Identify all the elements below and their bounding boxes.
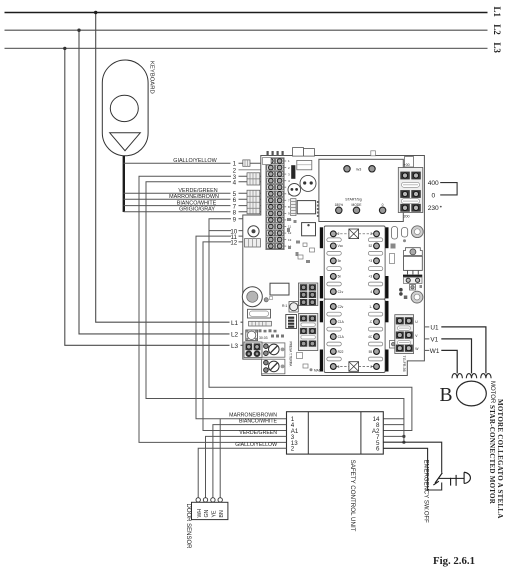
small part at board top right — [405, 157, 414, 168]
motor M — [440, 381, 496, 406]
svg-text:L2: L2 — [492, 24, 502, 35]
svg-text:L2: L2 — [231, 332, 239, 339]
relay K2 slot pair — [327, 327, 383, 331]
tick after 230 — [440, 206, 442, 208]
svg-text:13: 13 — [288, 238, 292, 242]
svg-text:180%: 180% — [335, 203, 344, 207]
svg-text:nv3: nv3 — [356, 168, 362, 172]
small part left of motor block — [390, 341, 398, 349]
terminal strip X1 — [266, 158, 284, 250]
voltage selector block X2 — [398, 163, 423, 219]
connector CN4 — [299, 314, 318, 351]
svg-text:+3: +3 — [369, 275, 373, 279]
svg-text:DOOR SENSOR: DOOR SENSOR — [185, 504, 191, 550]
relay driver box — [297, 160, 312, 169]
small cap C2 — [264, 297, 272, 302]
svg-text:200: 200 — [404, 215, 410, 219]
relay K1 slot pair — [327, 267, 383, 271]
keyboard — [102, 60, 154, 156]
motor terminal block X3 (U1 V1 W1) — [395, 315, 420, 354]
relay K2 contact row 2 — [330, 319, 379, 325]
solder pad bar — [320, 350, 323, 372]
svg-text:YE: YE — [212, 510, 218, 517]
screw terminal ST1 — [262, 343, 285, 357]
safety control unit box — [287, 412, 384, 454]
resistor array RN1 — [291, 199, 296, 216]
X1 screw terminal row 2 — [267, 165, 290, 170]
svg-text:L3: L3 — [231, 343, 239, 350]
bottom-center small parts — [297, 353, 380, 373]
relay coil symbol K2 — [336, 362, 373, 372]
solder pad bar — [320, 276, 323, 298]
svg-text:GIALLO/YELLOW: GIALLO/YELLOW — [173, 158, 217, 164]
svg-text:5n: 5n — [338, 259, 342, 263]
svg-text:52: 52 — [369, 244, 373, 248]
svg-text:B: B — [440, 385, 453, 406]
relay K1 contact row 1 — [330, 231, 379, 237]
power rail L3 — [5, 42, 503, 53]
svg-text:1-: 1- — [369, 305, 372, 309]
svg-text:230: 230 — [428, 205, 439, 212]
solder pad bar — [320, 301, 323, 322]
solder pad bar — [385, 227, 388, 248]
wire 4 (to safety unit 14 over-box run) — [146, 180, 404, 419]
door sensor wire WH (to terminal 2) — [198, 448, 286, 497]
mounting hole H2 — [411, 291, 423, 303]
X1 screw terminal row 11 — [267, 224, 292, 229]
keyboard cable — [123, 156, 125, 212]
small parts right of K1 — [391, 227, 408, 249]
transistor Q2 — [300, 175, 316, 191]
safety unit wire 8 — [383, 424, 404, 426]
X1 screw terminal row 4 — [267, 178, 290, 183]
svg-text:BIANCO/WHITE: BIANCO/WHITE — [177, 200, 217, 206]
solder pad bar — [385, 301, 388, 322]
display module M1 — [317, 159, 403, 221]
wire 11 (to safety unit 1) — [196, 234, 287, 419]
connector CN3 — [299, 283, 318, 306]
wire 8 GRIGIO/GRAY — [124, 206, 267, 216]
mains terminal block L1L2L3 — [244, 342, 262, 358]
power connector on top edge — [293, 148, 315, 157]
X1 screw terminal row 3 — [267, 172, 290, 177]
svg-text:V1: V1 — [430, 337, 438, 344]
connector on wire 12 row — [245, 239, 261, 247]
IC U2 — [297, 201, 315, 214]
door sensor wire BN (joins wire to terminal 1) — [219, 419, 221, 498]
junction vertical 14-8-7-5 — [403, 419, 405, 442]
X1 screw terminal row 7 — [267, 198, 290, 203]
svg-text:C1A: C1A — [338, 335, 345, 339]
svg-text:C1A: C1A — [338, 320, 345, 324]
wire 12 (to safety unit A1) — [203, 240, 287, 431]
junction dot 5 — [402, 441, 405, 444]
door sensor wire GN (to terminal 3) — [206, 436, 287, 497]
emergency switch (NC mushroom) — [433, 472, 470, 486]
svg-text:12: 12 — [230, 240, 237, 247]
electrolytic capacitor C1 — [242, 287, 262, 307]
X1 screw terminal row 6 — [267, 191, 290, 196]
relay K3 with circle — [246, 330, 258, 341]
power rail L1 — [5, 7, 503, 18]
safety unit wire 5 to emergency switch — [383, 442, 441, 473]
relay K1 contact row 4 — [330, 274, 379, 280]
diode D1 — [390, 254, 395, 264]
svg-text:GIALLO/YELLOW: GIALLO/YELLOW — [235, 442, 277, 448]
solder pad bar — [385, 350, 388, 372]
jumper row marks — [259, 329, 285, 340]
svg-text:GRIGIO/GRAY: GRIGIO/GRAY — [179, 206, 215, 212]
power rail L2 — [5, 24, 503, 35]
relay K1 contact row 5 — [330, 289, 379, 295]
svg-text:EMERGENCY SW.OFF: EMERGENCY SW.OFF — [422, 460, 428, 524]
wire 6 MARRONE/BROWN — [124, 194, 267, 204]
wire L2 drop to PCB terminal L2 — [77, 29, 243, 339]
relay K1 slot pair — [327, 251, 383, 255]
capacitor dots — [399, 288, 407, 299]
connector on wires 3-4 — [247, 173, 260, 185]
wire 7 BIANCO/WHITE — [124, 200, 267, 210]
svg-text:+3: +3 — [369, 259, 373, 263]
svg-text:2: 2 — [291, 446, 295, 453]
wire 5 VERDE/GREEN — [124, 188, 267, 198]
svg-text:L1: L1 — [231, 320, 239, 327]
terminal screws under T1 — [404, 277, 423, 283]
wire 3 (to safety unit 13) — [139, 174, 287, 443]
screw terminal ST2 — [261, 359, 285, 374]
svg-text:+00: +00 — [404, 163, 410, 167]
X1 screw terminal row 14 — [267, 244, 292, 249]
svg-text:L1: L1 — [492, 7, 502, 18]
svg-text:C2v: C2v — [338, 305, 344, 309]
wire U1 — [425, 325, 486, 374]
voltage jumper 400-0 — [440, 183, 457, 195]
small part top-left corner — [263, 158, 272, 165]
wire 1 GIALLO/YELLOW — [124, 158, 267, 168]
relay K2 contact row 4 — [330, 349, 379, 355]
svg-text:2: 2 — [338, 232, 340, 236]
svg-text:2: 2 — [370, 365, 372, 369]
relay K2 slot pair — [327, 342, 383, 346]
relay K2 contact row 5 — [330, 364, 379, 370]
svg-text:R:1: R:1 — [282, 304, 287, 308]
relay module K2 — [324, 299, 385, 372]
relay RL1 — [248, 309, 271, 318]
svg-text:PRESA T.TERRA: PRESA T.TERRA — [289, 342, 293, 368]
connector CN1 (L1 row) — [249, 321, 272, 326]
wire 9/10 bracket (to safety unit A2) — [209, 216, 412, 430]
safety unit wire 7 — [383, 435, 404, 437]
IC U3 — [302, 223, 316, 236]
junction dot 7 — [402, 435, 405, 438]
connector on wire 1 — [243, 160, 250, 166]
svg-text:6: 6 — [376, 446, 380, 453]
edge pin marks — [267, 151, 284, 155]
connector on wires 5-8 — [247, 190, 260, 214]
svg-text:5n: 5n — [338, 275, 342, 279]
small part below T1 — [410, 285, 423, 291]
motor cable glands — [452, 374, 491, 379]
svg-text:U1: U1 — [430, 325, 439, 332]
relay K1 contact row 3 — [330, 258, 379, 264]
svg-text:WH: WH — [197, 509, 203, 518]
svg-text:55: 55 — [369, 350, 373, 354]
relay module K1 — [324, 226, 385, 299]
X1 screw terminal row 5 — [267, 185, 290, 190]
safety unit wire 6 to emergency switch — [383, 448, 441, 490]
X1 screw terminal row 10 — [267, 217, 292, 222]
svg-text:R22: R22 — [338, 350, 344, 354]
door sensor wire YE (to terminal 4) — [213, 425, 287, 498]
svg-text:9: 9 — [233, 216, 237, 223]
svg-text:4: 4 — [233, 180, 237, 187]
svg-text:MOTORE COLLEGATO A STELLA: MOTORE COLLEGATO A STELLA — [496, 399, 504, 519]
svg-text:VERDE/GREEN: VERDE/GREEN — [239, 430, 277, 436]
svg-text:MODE: MODE — [352, 203, 363, 207]
small part on top edge — [371, 151, 376, 156]
solder pad bar — [385, 276, 388, 298]
svg-text:400: 400 — [428, 180, 439, 187]
IC U4 — [270, 283, 289, 295]
svg-text:SAFETY CONTROL UNIT: SAFETY CONTROL UNIT — [349, 460, 356, 532]
svg-text:C1v: C1v — [338, 290, 344, 294]
mounting hole H1 — [411, 226, 423, 238]
terminal 2 (no wire) — [233, 168, 267, 175]
transistor T1 (TO-220 with heatsink tab) — [403, 248, 422, 277]
wire L1 drop to PCB terminal L1 — [94, 11, 243, 327]
svg-text:KEYBOARD: KEYBOARD — [149, 61, 155, 94]
svg-text:4: 4 — [370, 290, 372, 294]
svg-text:2: 2 — [370, 232, 372, 236]
svg-text:STAR-CONNECTED MOTOR: STAR-CONNECTED MOTOR — [488, 405, 496, 505]
X1 screw terminal row 9 — [267, 211, 290, 216]
relay K2 slot pair — [327, 312, 383, 316]
relay K2 contact row 3 — [330, 334, 379, 340]
wire W1 — [425, 348, 457, 373]
svg-text:Fig. 2.6.1: Fig. 2.6.1 — [433, 555, 475, 567]
relay coil symbol K1 — [336, 229, 373, 239]
PCB control board outline — [243, 156, 425, 376]
relay K1 slot pair — [327, 282, 383, 286]
transistor Q1 — [288, 184, 301, 197]
X1 screw terminal row 8 — [267, 204, 290, 209]
DIP switch SW2 — [286, 315, 297, 329]
svg-text:MOTOR: MOTOR — [489, 381, 495, 404]
wire L3 drop to PCB terminal L3 — [63, 47, 243, 350]
fuse F1 (dark bar) — [291, 165, 295, 179]
svg-text:8: 8 — [233, 209, 237, 216]
svg-text:0: 0 — [432, 193, 436, 200]
wire V1 — [425, 337, 472, 374]
svg-text:30.03: 30.03 — [259, 336, 268, 340]
X1 screw terminal row 1 — [267, 158, 290, 163]
svg-text:TG-FR-56: TG-FR-56 — [402, 356, 406, 372]
solder pad bar — [320, 227, 323, 248]
svg-text:GN: GN — [204, 509, 210, 517]
relay K1 slot pair — [327, 238, 383, 242]
relay K2 contact row 1 — [330, 304, 379, 310]
buzzer BZ1 — [248, 226, 259, 237]
X1 screw terminal row 13 — [267, 237, 292, 242]
svg-text:BIANCO/WHITE: BIANCO/WHITE — [239, 418, 278, 424]
svg-text:W1: W1 — [430, 348, 440, 355]
door sensor — [192, 498, 228, 520]
svg-text:5: 5 — [338, 365, 340, 369]
svg-text:1: 1 — [233, 161, 237, 168]
push button SW1 — [289, 302, 298, 313]
X1 screw terminal row 12 — [267, 231, 292, 236]
relay K1 contact row 2 — [330, 243, 379, 249]
svg-text:START/Sg: START/Sg — [345, 198, 361, 202]
relay K2 slot pair — [327, 357, 383, 361]
svg-text:L3: L3 — [492, 42, 502, 53]
svg-text:4C: 4C — [368, 335, 373, 339]
small discrete parts column — [282, 218, 315, 308]
svg-text:0: 0 — [382, 203, 384, 207]
svg-text:MARRONE/BROWN: MARRONE/BROWN — [169, 194, 219, 200]
svg-text:BN: BN — [219, 510, 225, 517]
svg-text:Vcc: Vcc — [338, 244, 344, 248]
